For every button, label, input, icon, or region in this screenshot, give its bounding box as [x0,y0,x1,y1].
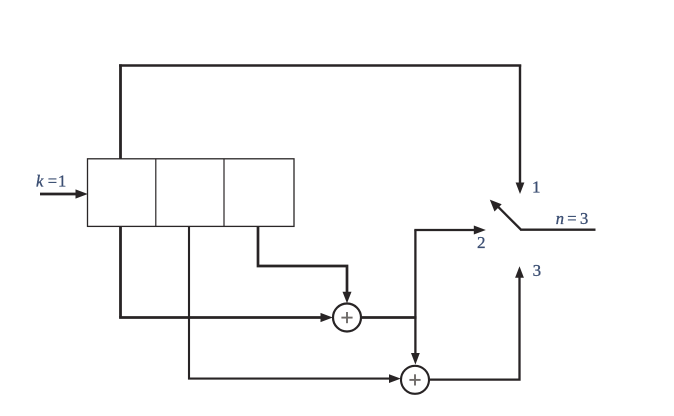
svg-text:3: 3 [533,261,542,280]
switch arm with arrowhead [498,206,522,230]
adder U2 (modulo-2 adder) [401,366,429,394]
arrowhead into switch position 1 [516,183,525,195]
register cell divider 1 [155,159,157,227]
svg-text:=: = [48,172,57,191]
svg-text:n: n [556,209,564,228]
svg-text:2: 2 [477,233,486,252]
switch output line (commutator) [520,228,595,230]
input arrow k=1 [40,193,77,196]
plus sign U2 [409,379,420,381]
wire: cell 3 tap down, right, and into adder U1 top [258,227,347,294]
register cell divider 2 [223,159,225,227]
wire: junction vertical (up to output 2 branch, down into adder U2) [414,230,416,354]
svg-text:1: 1 [532,178,541,197]
shift register box [88,159,295,227]
wire: feedback vertical through register cell 1 (x=120.5) [119,64,122,317]
plus sign U1 [341,317,352,319]
svg-text:k: k [36,172,44,191]
svg-text:3: 3 [580,209,588,228]
wire: adder U2 output right and up to switch position 3 [429,277,520,380]
wire: adder U1 output to junction [361,316,417,319]
wire: cell 2 tap down and right to adder U2 [189,227,390,379]
svg-text:1: 1 [58,172,66,191]
svg-text:=: = [567,209,576,228]
wire: cell 1 tap to adder U1 (thick) [119,316,322,319]
wire: right vertical down to switch position 1 [519,65,521,185]
wire: top horizontal feedback line [119,64,521,67]
adder U1 (modulo-2 adder) [333,304,361,332]
wire: branch to switch position 2 [414,229,475,231]
